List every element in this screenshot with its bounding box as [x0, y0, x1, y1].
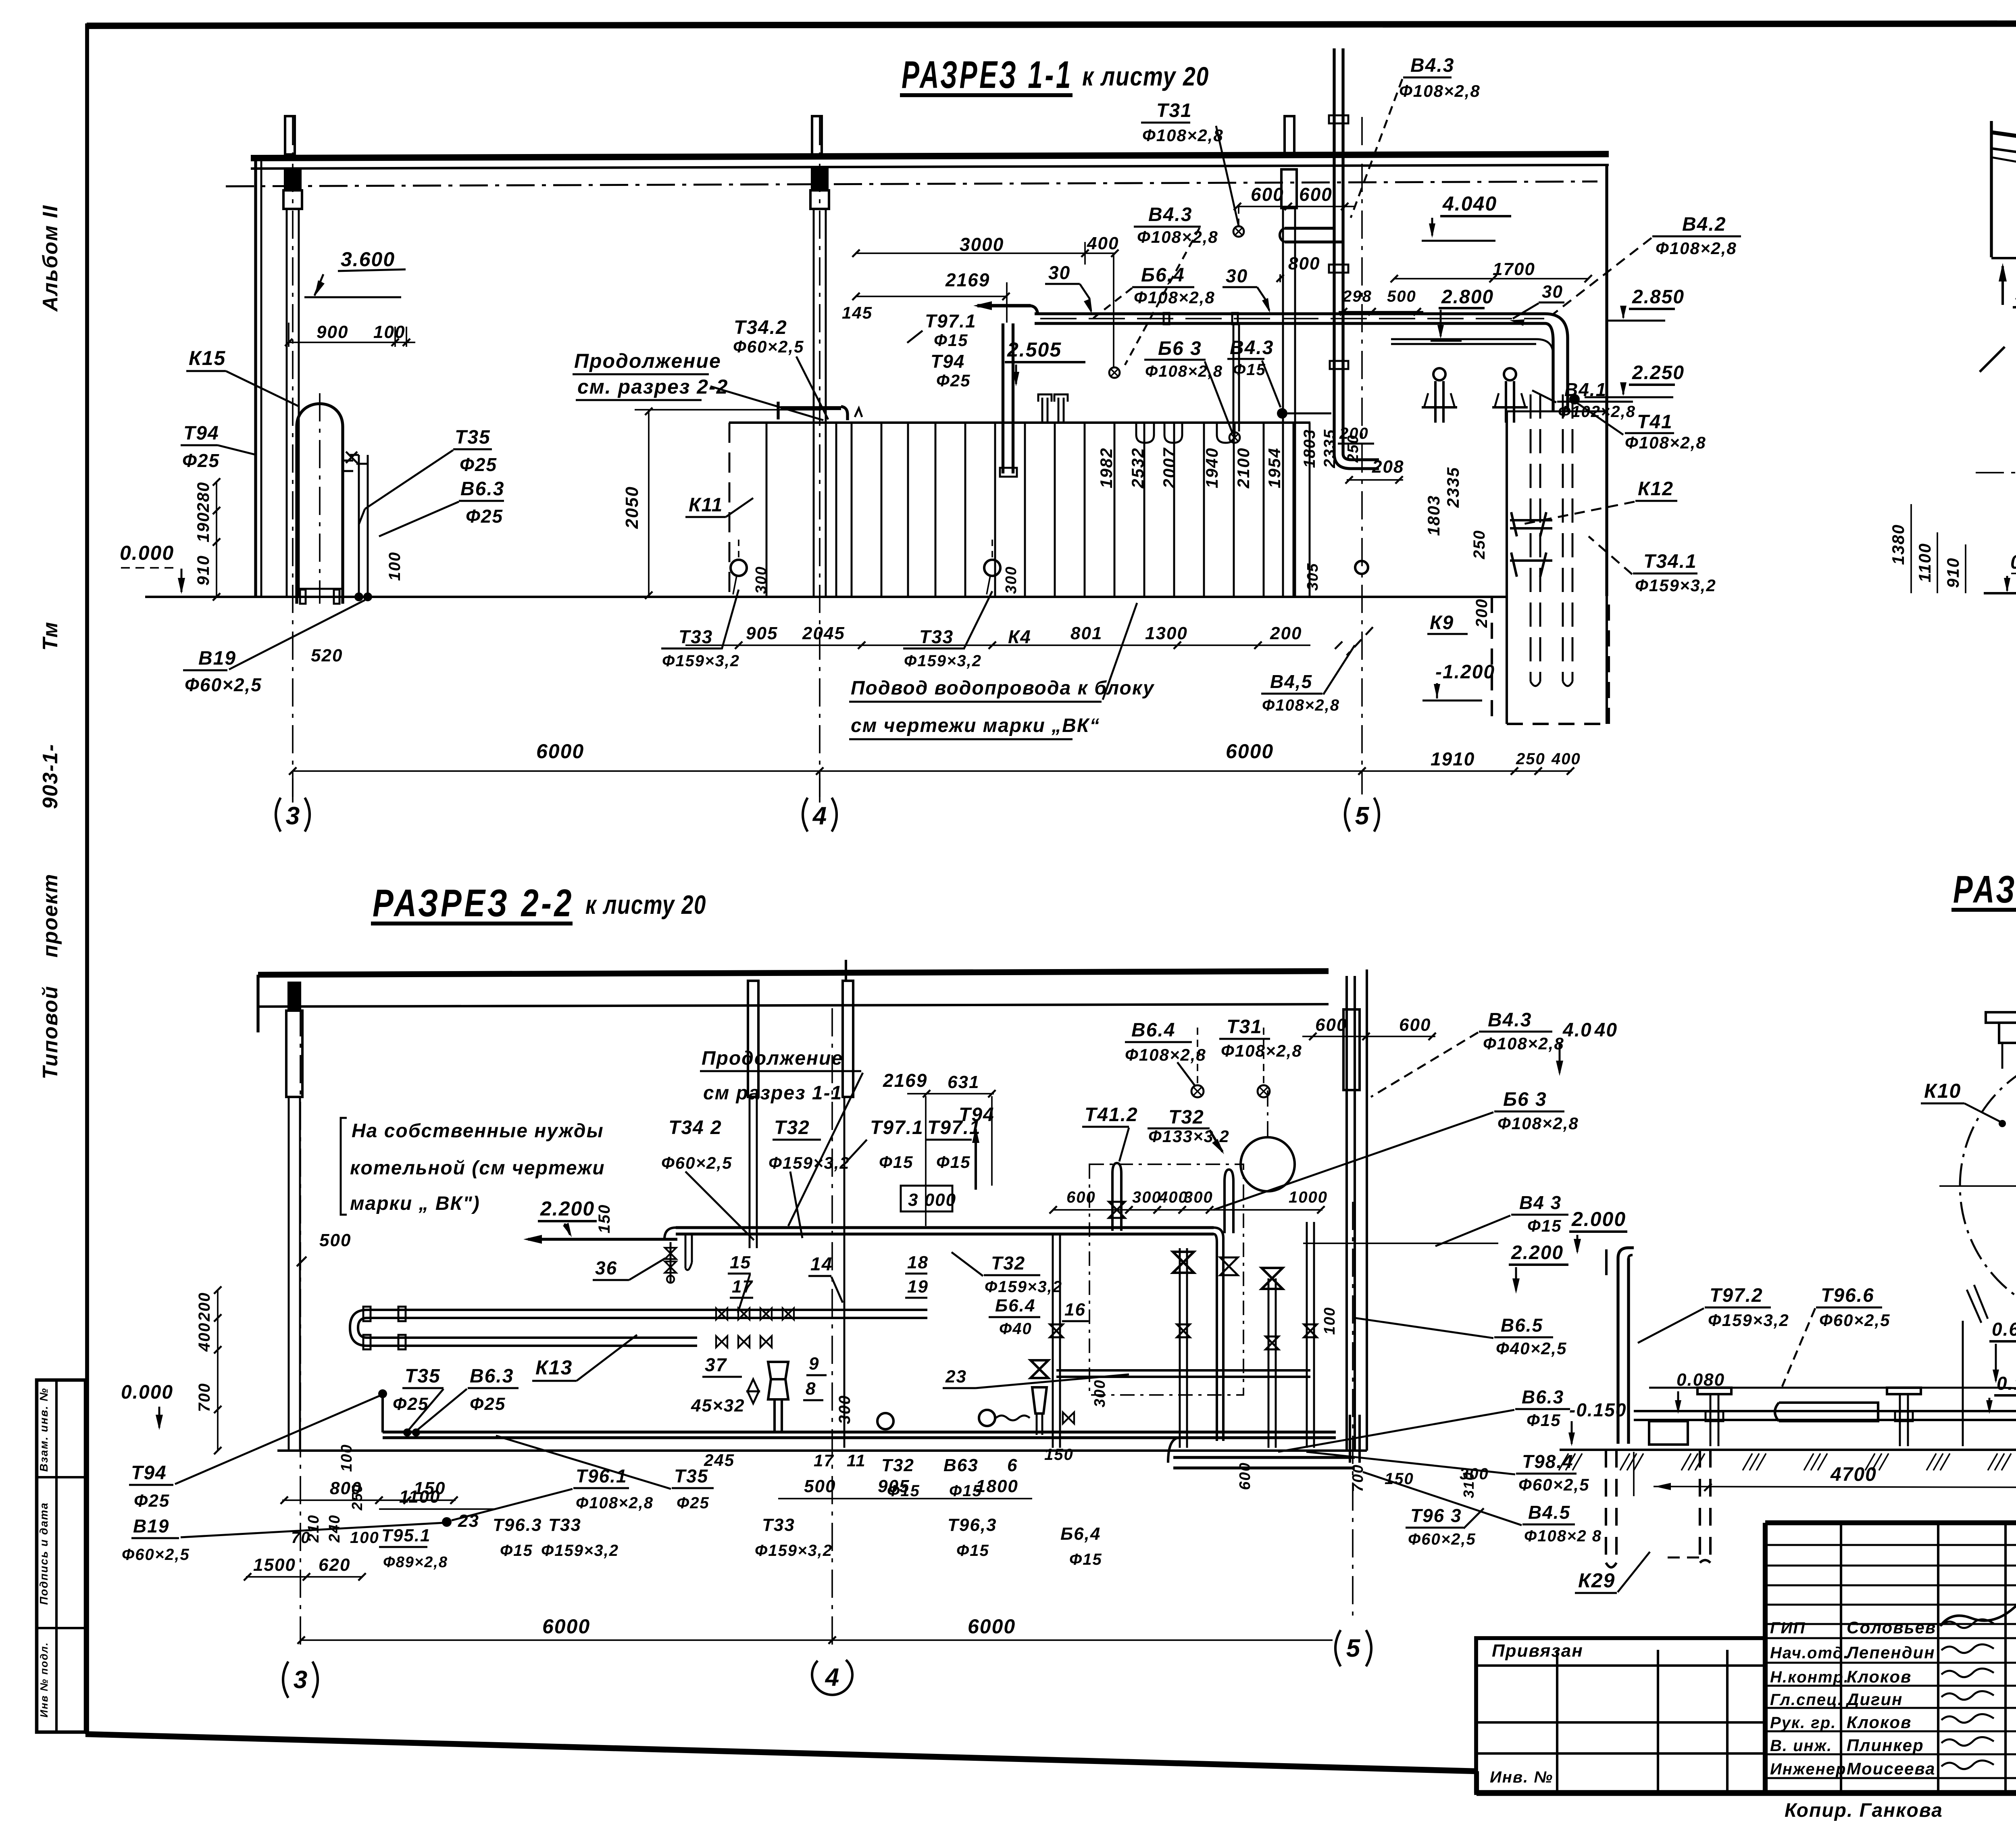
svg-text:РАЗРЕЗ 2-2: РАЗРЕЗ 2-2 — [373, 882, 574, 925]
svg-text:2532: 2532 — [1128, 447, 1147, 488]
svg-text:Т96.3: Т96.3 — [493, 1515, 542, 1535]
svg-text:3: 3 — [294, 1666, 307, 1694]
svg-text:Нач.отд.: Нач.отд. — [1770, 1644, 1849, 1662]
svg-text:298: 298 — [1342, 288, 1372, 305]
svg-text:РАЗРЕЗ 4-4: РАЗРЕЗ 4-4 — [1953, 868, 2016, 911]
svg-text:Т31: Т31 — [1156, 100, 1192, 121]
svg-text:Т33: Т33 — [679, 626, 713, 647]
svg-text:37: 37 — [705, 1354, 727, 1375]
svg-text:190: 190 — [194, 512, 212, 542]
svg-text:23: 23 — [458, 1511, 479, 1531]
svg-text:Ф25: Ф25 — [470, 1394, 506, 1414]
svg-text:600: 600 — [1299, 184, 1333, 205]
svg-text:2.250: 2.250 — [1632, 362, 1685, 384]
svg-text:В63: В63 — [943, 1455, 979, 1475]
svg-text:Т33: Т33 — [548, 1515, 581, 1535]
svg-text:250: 250 — [1516, 750, 1545, 768]
svg-text:500: 500 — [1387, 288, 1416, 305]
svg-text:300: 300 — [1091, 1379, 1108, 1407]
svg-text:300: 300 — [1184, 1188, 1213, 1206]
svg-text:Продолжение: Продолжение — [574, 350, 721, 372]
svg-text:Т96,3: Т96,3 — [948, 1515, 997, 1535]
svg-text:600: 600 — [1251, 184, 1284, 205]
svg-text:200: 200 — [1473, 598, 1491, 628]
svg-text:К4: К4 — [1008, 626, 1031, 647]
svg-text:1910: 1910 — [1431, 748, 1475, 769]
svg-text:1380: 1380 — [1889, 524, 1908, 565]
svg-text:2335: 2335 — [1443, 467, 1462, 508]
svg-text:Ф108×2,8: Ф108×2,8 — [1134, 288, 1215, 307]
svg-text:Т32: Т32 — [881, 1455, 914, 1475]
svg-text:30: 30 — [1542, 282, 1563, 302]
svg-text:6000: 6000 — [542, 1615, 590, 1638]
svg-text:В6.5: В6.5 — [1501, 1315, 1543, 1336]
svg-text:4: 4 — [812, 802, 827, 830]
svg-text:Н.контр.: Н.контр. — [1770, 1668, 1849, 1686]
svg-text:Ф108×2,8: Ф108×2,8 — [1142, 126, 1224, 145]
svg-text:9: 9 — [809, 1354, 819, 1374]
svg-text:В6.4: В6.4 — [1131, 1019, 1175, 1041]
svg-text:Ф25: Ф25 — [677, 1494, 710, 1512]
svg-text:В4.3: В4.3 — [1410, 55, 1454, 76]
svg-text:В. инж.: В. инж. — [1770, 1737, 1832, 1755]
svg-text:2100: 2100 — [1234, 447, 1253, 488]
svg-text:2050: 2050 — [622, 486, 642, 529]
svg-text:2335: 2335 — [1321, 429, 1339, 469]
svg-text:3000: 3000 — [960, 234, 1004, 255]
svg-text:Б6,4: Б6,4 — [1060, 1524, 1101, 1544]
svg-text:2.000: 2.000 — [1571, 1208, 1626, 1230]
svg-text:801: 801 — [1070, 623, 1102, 643]
svg-text:Б6,4: Б6,4 — [1141, 265, 1185, 286]
svg-text:Ф108×2,8: Ф108×2,8 — [1497, 1114, 1579, 1133]
svg-text:903-1-: 903-1- — [39, 744, 62, 809]
svg-text:2007: 2007 — [1160, 447, 1179, 488]
svg-text:17: 17 — [732, 1277, 753, 1297]
svg-text:45×32: 45×32 — [691, 1396, 745, 1416]
svg-text:900: 900 — [317, 322, 348, 342]
svg-text:6000: 6000 — [968, 1615, 1016, 1638]
svg-text:Ф159×3,2: Ф159×3,2 — [755, 1542, 833, 1559]
svg-text:1940: 1940 — [1202, 447, 1221, 488]
svg-text:300: 300 — [836, 1395, 854, 1424]
svg-text:1500: 1500 — [253, 1555, 296, 1575]
svg-text:240: 240 — [326, 1514, 343, 1543]
svg-text:Ф60×2,5: Ф60×2,5 — [661, 1153, 732, 1172]
svg-text:150: 150 — [1044, 1446, 1074, 1464]
svg-text:Ф15: Ф15 — [1069, 1551, 1102, 1568]
svg-text:Ф159×3,2: Ф159×3,2 — [541, 1542, 619, 1559]
svg-text:Дигин: Дигин — [1845, 1690, 1903, 1709]
svg-text:Инженер: Инженер — [1770, 1760, 1846, 1778]
svg-text:1800: 1800 — [976, 1476, 1018, 1496]
svg-text:Т94: Т94 — [131, 1462, 167, 1484]
svg-text:210: 210 — [305, 1514, 322, 1543]
svg-text:Ф108×2,8: Ф108×2,8 — [1137, 227, 1218, 246]
svg-text:300: 300 — [753, 566, 770, 594]
svg-text:Ф159×3,2: Ф159×3,2 — [1708, 1311, 1789, 1330]
svg-text:Ф108×2,8: Ф108×2,8 — [1625, 433, 1706, 452]
svg-text:Тм: Тм — [39, 621, 62, 651]
svg-text:Ф108×2,8: Ф108×2,8 — [1262, 696, 1340, 714]
svg-text:проект: проект — [39, 874, 62, 958]
svg-text:Т41: Т41 — [1637, 411, 1673, 433]
svg-text:Ф15: Ф15 — [936, 1153, 971, 1172]
svg-text:16: 16 — [1064, 1300, 1086, 1320]
svg-text:Т34.1: Т34.1 — [1643, 551, 1697, 572]
svg-text:100: 100 — [1321, 1307, 1338, 1334]
svg-text:280: 280 — [194, 482, 212, 513]
svg-text:100: 100 — [350, 1529, 379, 1547]
svg-text:В4,5: В4,5 — [1270, 671, 1312, 692]
svg-text:Т32: Т32 — [1168, 1107, 1204, 1128]
svg-text:0.630: 0.630 — [1992, 1319, 2016, 1340]
svg-text:Ф15: Ф15 — [500, 1542, 533, 1559]
svg-text:400: 400 — [1087, 234, 1119, 253]
svg-text:Т95.1: Т95.1 — [381, 1526, 431, 1545]
svg-text:Ф108×2,8: Ф108×2,8 — [576, 1494, 654, 1512]
svg-text:700: 700 — [196, 1383, 213, 1412]
svg-text:Т34 2: Т34 2 — [669, 1117, 722, 1138]
svg-text:2045: 2045 — [802, 623, 845, 643]
svg-text:В6.3: В6.3 — [1522, 1386, 1564, 1407]
svg-text:Ф60×2,5: Ф60×2,5 — [1819, 1311, 1890, 1330]
svg-text:1300: 1300 — [1145, 623, 1188, 643]
svg-text:150: 150 — [596, 1204, 613, 1234]
svg-text:Т96.6: Т96.6 — [1821, 1285, 1874, 1306]
svg-text:4.0 40: 4.0 40 — [1562, 1019, 1618, 1041]
svg-text:Ф25: Ф25 — [393, 1394, 429, 1414]
svg-text:В4.3: В4.3 — [1148, 204, 1192, 225]
svg-text:6: 6 — [1007, 1455, 1018, 1475]
svg-text:23: 23 — [945, 1367, 967, 1386]
svg-text:Ф25: Ф25 — [936, 371, 971, 390]
svg-text:208: 208 — [1372, 457, 1404, 477]
svg-text:Т33: Т33 — [919, 626, 954, 647]
svg-text:500: 500 — [319, 1230, 351, 1250]
svg-text:0.080: 0.080 — [1677, 1370, 1725, 1390]
svg-text:Ф108×2,8: Ф108×2,8 — [1125, 1045, 1206, 1064]
svg-text:1982: 1982 — [1097, 447, 1116, 488]
svg-text:Т94: Т94 — [931, 351, 965, 372]
svg-text:марки „ ВК"): марки „ ВК") — [350, 1193, 480, 1214]
svg-text:Альбом II: Альбом II — [39, 205, 62, 313]
svg-text:200: 200 — [1339, 425, 1369, 442]
svg-text:Ф25: Ф25 — [460, 454, 497, 475]
svg-text:Типовой: Типовой — [39, 986, 62, 1080]
svg-text:Ф60×2,5: Ф60×2,5 — [1518, 1475, 1589, 1494]
svg-text:Ф89×2,8: Ф89×2,8 — [383, 1554, 448, 1571]
svg-text:910: 910 — [1943, 557, 1962, 588]
svg-text:Лепендин: Лепендин — [1845, 1643, 1935, 1662]
svg-text:100: 100 — [386, 552, 404, 581]
svg-text:Т94: Т94 — [959, 1104, 995, 1126]
svg-text:Ф40: Ф40 — [999, 1320, 1032, 1338]
svg-text:Ф15: Ф15 — [934, 331, 968, 350]
svg-text:Т32: Т32 — [774, 1117, 810, 1138]
svg-text:Соловьев: Соловьев — [1847, 1618, 1936, 1637]
svg-text:Т35: Т35 — [674, 1466, 708, 1486]
svg-text:-1.200: -1.200 — [1435, 661, 1495, 683]
svg-text:Т35: Т35 — [405, 1366, 441, 1387]
svg-text:Т97.1: Т97.1 — [925, 311, 977, 331]
svg-text:Ф60×2,5: Ф60×2,5 — [185, 674, 262, 695]
svg-text:4700: 4700 — [1830, 1464, 1877, 1485]
svg-text:Ф108×2,8: Ф108×2,8 — [1656, 239, 1737, 258]
svg-text:Копир. Ганкова: Копир. Ганкова — [1785, 1800, 1943, 1821]
svg-text:к листу 20: к листу 20 — [585, 890, 706, 919]
svg-text:Т41.2: Т41.2 — [1085, 1104, 1138, 1126]
svg-text:Ф108×2,8: Ф108×2,8 — [1399, 81, 1481, 100]
svg-text:245: 245 — [704, 1451, 735, 1470]
svg-text:Т96 3: Т96 3 — [1410, 1505, 1462, 1526]
svg-text:5: 5 — [1355, 802, 1370, 830]
svg-text:Ф25: Ф25 — [134, 1491, 170, 1511]
svg-text:к листу 20: к листу 20 — [1082, 61, 1209, 91]
svg-text:Т32: Т32 — [991, 1253, 1025, 1274]
svg-text:Ф159×3,2: Ф159×3,2 — [768, 1153, 850, 1172]
svg-text:3: 3 — [286, 802, 300, 830]
svg-text:1954: 1954 — [1265, 447, 1284, 488]
svg-text:Инв № подл.: Инв № подл. — [38, 1642, 50, 1718]
svg-text:Рук. гр.: Рук. гр. — [1770, 1714, 1836, 1732]
svg-text:4: 4 — [825, 1664, 839, 1691]
svg-text:Ф60×2,5: Ф60×2,5 — [1408, 1530, 1476, 1548]
svg-text:Ф25: Ф25 — [182, 450, 220, 471]
svg-text:910: 910 — [194, 555, 212, 586]
svg-text:2.200: 2.200 — [1511, 1242, 1564, 1263]
svg-text:Т34.2: Т34.2 — [734, 317, 787, 338]
svg-text:Ф108×2 8: Ф108×2 8 — [1524, 1527, 1602, 1545]
svg-text:1100: 1100 — [399, 1487, 441, 1507]
svg-text:1803: 1803 — [1424, 495, 1443, 536]
svg-text:2.850: 2.850 — [1632, 286, 1685, 308]
svg-text:200: 200 — [1270, 623, 1302, 643]
svg-text:ГИП: ГИП — [1770, 1619, 1806, 1637]
svg-text:На собственные нужды: На собственные нужды — [352, 1120, 604, 1142]
svg-text:К10: К10 — [1924, 1080, 1961, 1102]
svg-text:2169: 2169 — [883, 1070, 927, 1091]
svg-text:6000: 6000 — [1226, 740, 1274, 763]
svg-text:2169: 2169 — [945, 269, 990, 290]
svg-text:В4.3: В4.3 — [1230, 337, 1274, 359]
svg-text:Т31: Т31 — [1227, 1016, 1262, 1038]
svg-text:0.000: 0.000 — [120, 542, 174, 564]
svg-text:Привязан: Привязан — [1492, 1641, 1583, 1661]
svg-text:600: 600 — [1066, 1188, 1096, 1206]
svg-text:2.505: 2.505 — [1007, 338, 1062, 361]
svg-text:см чертежи марки „ВК“: см чертежи марки „ВК“ — [851, 715, 1100, 736]
svg-text:В6.3: В6.3 — [460, 478, 504, 500]
svg-text:36: 36 — [595, 1257, 617, 1278]
svg-text:6000: 6000 — [536, 740, 584, 763]
svg-text:Т97.2: Т97.2 — [1710, 1285, 1763, 1306]
svg-text:Ф15: Ф15 — [949, 1482, 982, 1500]
svg-text:К29: К29 — [1578, 1569, 1615, 1592]
svg-text:250: 250 — [1470, 530, 1488, 560]
svg-text:Ф15: Ф15 — [1527, 1216, 1562, 1235]
svg-text:Продолжение: Продолжение — [702, 1048, 843, 1069]
svg-text:15: 15 — [730, 1253, 751, 1272]
svg-text:145: 145 — [842, 303, 873, 322]
svg-text:Т94: Т94 — [183, 423, 219, 444]
svg-text:В19: В19 — [133, 1516, 169, 1537]
svg-text:Т97.1: Т97.1 — [870, 1117, 924, 1138]
svg-text:В4.5: В4.5 — [1528, 1502, 1570, 1523]
svg-text:0,000: 0,000 — [2010, 552, 2016, 573]
svg-text:600: 600 — [1399, 1015, 1431, 1035]
svg-text:Ф108×2,8: Ф108×2,8 — [1483, 1034, 1564, 1053]
svg-text:905: 905 — [746, 623, 778, 643]
svg-text:19: 19 — [907, 1277, 929, 1297]
svg-text:Ф108×2,8: Ф108×2,8 — [1221, 1041, 1302, 1060]
svg-text:Т35: Т35 — [455, 427, 491, 448]
svg-text:Моисеева: Моисеева — [1847, 1759, 1936, 1778]
svg-text:3.600: 3.600 — [341, 248, 395, 271]
svg-text:18: 18 — [907, 1253, 929, 1272]
svg-text:В4 3: В4 3 — [1519, 1192, 1562, 1213]
svg-text:0.000: 0.000 — [121, 1382, 173, 1403]
svg-text:Б6 3: Б6 3 — [1158, 338, 1202, 359]
svg-text:520: 520 — [311, 646, 343, 665]
svg-text:Ф60×2,5: Ф60×2,5 — [733, 337, 804, 356]
svg-text:Ф25: Ф25 — [466, 506, 503, 527]
svg-text:Инв. №: Инв. № — [1490, 1768, 1553, 1786]
svg-text:В19: В19 — [198, 648, 236, 669]
svg-text:30: 30 — [1048, 262, 1070, 283]
svg-text:Ф60×2,5: Ф60×2,5 — [122, 1546, 190, 1564]
svg-text:РАЗРЕЗ 1-1: РАЗРЕЗ 1-1 — [902, 53, 1073, 96]
svg-text:Взам. инв. №: Взам. инв. № — [37, 1388, 50, 1472]
svg-text:700: 700 — [1350, 1464, 1366, 1492]
svg-text:Ф15: Ф15 — [879, 1153, 914, 1172]
svg-text:Ф15: Ф15 — [1233, 361, 1266, 379]
svg-text:В6.3: В6.3 — [470, 1366, 514, 1387]
svg-text:600: 600 — [1237, 1462, 1254, 1490]
svg-text:200: 200 — [196, 1292, 213, 1322]
svg-text:1700: 1700 — [1493, 259, 1535, 279]
svg-text:Гл.спец.: Гл.спец. — [1770, 1691, 1843, 1709]
svg-text:2.200: 2.200 — [540, 1197, 595, 1220]
svg-text:Плинкер: Плинкер — [1847, 1736, 1924, 1755]
svg-text:631: 631 — [948, 1072, 979, 1092]
svg-text:В4.3: В4.3 — [1488, 1009, 1532, 1031]
svg-text:14: 14 — [810, 1253, 833, 1274]
svg-text:Подпись и дата: Подпись и дата — [37, 1502, 50, 1605]
svg-text:400: 400 — [196, 1322, 213, 1352]
svg-text:1100: 1100 — [1915, 543, 1934, 582]
svg-text:11: 11 — [847, 1451, 866, 1470]
svg-text:500: 500 — [804, 1476, 836, 1496]
svg-text:котельной (см чертежи: котельной (см чертежи — [350, 1157, 605, 1179]
svg-text:300: 300 — [1003, 566, 1020, 594]
svg-text:Б6 3: Б6 3 — [1503, 1089, 1547, 1110]
svg-text:250: 250 — [349, 1484, 365, 1511]
svg-text:5: 5 — [1346, 1635, 1361, 1662]
svg-text:Клоков: Клоков — [1847, 1667, 1912, 1686]
svg-text:К11: К11 — [689, 494, 723, 516]
svg-text:Т33: Т33 — [762, 1515, 795, 1535]
svg-text:К13: К13 — [535, 1356, 573, 1379]
svg-text:2.800: 2.800 — [1441, 286, 1494, 308]
svg-text:0.100: 0.100 — [1997, 1373, 2016, 1394]
svg-text:К15: К15 — [189, 347, 226, 369]
svg-text:К9: К9 — [1430, 612, 1454, 634]
svg-text:310: 310 — [1460, 1472, 1477, 1498]
svg-text:Ф159×3,2: Ф159×3,2 — [985, 1278, 1062, 1296]
svg-text:Ф15: Ф15 — [956, 1542, 989, 1559]
svg-text:305: 305 — [1304, 563, 1321, 590]
svg-text:В4.2: В4.2 — [1682, 214, 1726, 235]
svg-text:Ф159×3,2: Ф159×3,2 — [662, 652, 740, 670]
svg-text:1000: 1000 — [1289, 1188, 1328, 1206]
svg-text:17: 17 — [814, 1451, 834, 1470]
svg-text:Ф15: Ф15 — [1527, 1411, 1561, 1430]
svg-text:4.040: 4.040 — [1442, 192, 1497, 215]
svg-text:30: 30 — [1226, 265, 1248, 286]
svg-text:1803: 1803 — [1301, 429, 1318, 468]
svg-text:Клоков: Клоков — [1847, 1713, 1912, 1732]
svg-text:Ф40×2,5: Ф40×2,5 — [1496, 1339, 1567, 1358]
svg-text:300: 300 — [1132, 1188, 1162, 1206]
svg-text:400: 400 — [1551, 750, 1581, 768]
svg-text:см. разрез 2-2: см. разрез 2-2 — [577, 375, 728, 398]
svg-text:620: 620 — [319, 1555, 350, 1575]
svg-text:Ф15: Ф15 — [887, 1482, 920, 1500]
svg-text:100: 100 — [373, 322, 405, 342]
svg-text:К12: К12 — [1638, 478, 1674, 500]
svg-text:Б6.4: Б6.4 — [995, 1296, 1035, 1316]
svg-text:Ф159×3,2: Ф159×3,2 — [904, 652, 982, 670]
svg-text:3 000: 3 000 — [908, 1190, 956, 1210]
svg-text:800: 800 — [1288, 254, 1320, 273]
svg-text:Ф159×3,2: Ф159×3,2 — [1635, 576, 1716, 595]
svg-text:8: 8 — [806, 1379, 816, 1399]
svg-text:100: 100 — [338, 1444, 355, 1472]
svg-text:-0.150: -0.150 — [1569, 1399, 1627, 1420]
svg-text:см разрез 1-1: см разрез 1-1 — [703, 1082, 842, 1104]
